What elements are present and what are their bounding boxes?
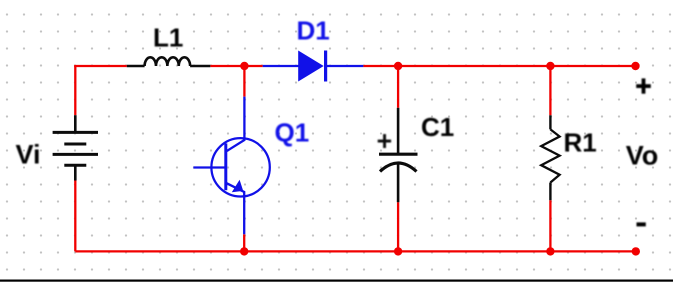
wire bottom rail xyxy=(75,250,636,252)
capacitor C1 xyxy=(379,108,418,202)
inductor L1 xyxy=(127,57,211,66)
wire top rail left red segment xyxy=(75,65,127,66)
wire blue diode anode lead xyxy=(263,65,299,67)
wire C1 top red xyxy=(397,66,399,108)
svg-text:Vo: Vo xyxy=(626,141,659,171)
wire top rail red segment inductor to D1 junction xyxy=(210,65,262,67)
wire C1 bottom red xyxy=(397,202,399,251)
junction dots bottom rail xyxy=(240,247,640,255)
wire Q1 emitter red xyxy=(243,234,245,251)
svg-text:C1: C1 xyxy=(421,112,454,142)
diode D1 xyxy=(298,51,325,82)
output minus terminal xyxy=(637,222,646,226)
wire Q1 collector red xyxy=(243,66,245,97)
battery Vi xyxy=(53,115,98,180)
resistor R1 xyxy=(541,115,559,200)
Q1 emitter arrow xyxy=(232,180,243,192)
svg-text:R1: R1 xyxy=(564,128,597,158)
junction dots top rail xyxy=(240,62,640,70)
wire R1 top red xyxy=(549,66,551,115)
bottom border line xyxy=(0,280,673,282)
C1 plus sign xyxy=(378,134,391,148)
svg-text:Q1: Q1 xyxy=(275,118,310,148)
transistor Q1 xyxy=(193,97,269,235)
wire left branch upper red xyxy=(74,66,76,115)
output plus terminal xyxy=(636,78,651,93)
svg-text:Vi: Vi xyxy=(16,139,41,169)
wire left branch lower red xyxy=(74,181,76,252)
wire R1 bottom red xyxy=(549,200,551,251)
svg-text:D1: D1 xyxy=(297,15,330,45)
svg-text:L1: L1 xyxy=(153,23,183,53)
wire blue diode cathode lead xyxy=(326,65,364,67)
wire top rail red segment D1 to right end xyxy=(363,65,635,67)
